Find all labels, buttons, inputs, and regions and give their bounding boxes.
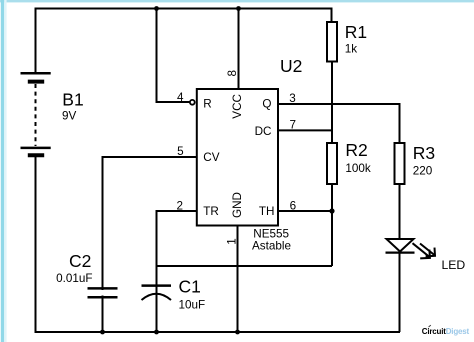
svg-text:2: 2: [176, 200, 183, 213]
svg-text:R2: R2: [345, 140, 367, 160]
svg-text:R1: R1: [345, 22, 367, 42]
svg-text:Q: Q: [262, 98, 271, 111]
svg-text:1k: 1k: [345, 42, 358, 55]
svg-text:R3: R3: [413, 143, 435, 163]
svg-text:9V: 9V: [62, 109, 77, 122]
svg-text:TR: TR: [203, 205, 219, 218]
svg-text:4: 4: [177, 91, 184, 104]
svg-text:3: 3: [289, 92, 296, 105]
svg-text:B1: B1: [62, 89, 83, 109]
svg-text:8: 8: [226, 70, 239, 77]
svg-text:10uF: 10uF: [179, 298, 206, 311]
svg-text:C2: C2: [69, 251, 91, 271]
svg-text:6: 6: [290, 200, 297, 213]
svg-text:DC: DC: [255, 125, 272, 138]
svg-text:LED: LED: [442, 258, 466, 272]
svg-text:U2: U2: [280, 56, 302, 76]
svg-text:7: 7: [290, 118, 297, 131]
svg-text:Astable: Astable: [252, 240, 291, 253]
svg-text:R: R: [203, 98, 211, 111]
svg-text:CircuitDigest: CircuitDigest: [422, 327, 470, 336]
svg-text:VCC: VCC: [231, 94, 244, 119]
svg-text:GND: GND: [231, 192, 244, 218]
svg-text:1: 1: [225, 238, 238, 245]
svg-text:100k: 100k: [345, 162, 371, 175]
svg-text:220: 220: [413, 165, 433, 178]
svg-text:C1: C1: [179, 276, 201, 296]
svg-text:CV: CV: [203, 151, 219, 164]
svg-text:0.01uF: 0.01uF: [56, 272, 92, 285]
svg-text:5: 5: [177, 145, 184, 158]
svg-text:TH: TH: [259, 205, 275, 218]
